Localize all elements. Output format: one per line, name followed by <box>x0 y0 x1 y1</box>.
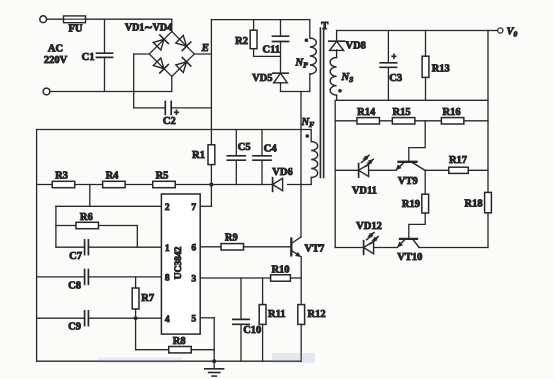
wire <box>374 247 398 249</box>
wire <box>171 77 173 92</box>
label C5 <box>238 142 251 153</box>
capacitor C1 <box>97 19 113 91</box>
label R7 <box>141 293 154 304</box>
label VD5 <box>252 73 272 84</box>
svg-text:C9: C9 <box>68 321 81 332</box>
phase dot NF <box>306 134 310 138</box>
pin 1 <box>165 244 170 254</box>
label UC3842 <box>174 246 184 279</box>
svg-text:+: + <box>391 52 396 62</box>
wire pin5 link <box>200 318 214 361</box>
svg-text:R8: R8 <box>173 336 186 347</box>
svg-text:E: E <box>201 42 209 54</box>
resistor R14 <box>357 118 380 124</box>
diode VD4 (bridge bottom-right) <box>172 54 195 77</box>
svg-text:VT7: VT7 <box>305 244 325 255</box>
svg-text:VD8: VD8 <box>346 41 366 52</box>
wire output top <box>337 30 488 32</box>
label R5 <box>156 171 169 182</box>
svg-text:VD12: VD12 <box>356 221 382 232</box>
resistor R6 <box>56 222 137 247</box>
secondary winding NS <box>330 50 337 101</box>
svg-text:R17: R17 <box>449 155 467 166</box>
terminal AC live <box>40 16 47 23</box>
wire <box>335 247 363 249</box>
svg-text:2: 2 <box>165 203 170 213</box>
resistor R16 <box>441 118 464 124</box>
wire NS return <box>337 99 488 101</box>
resistor R17 <box>449 167 469 173</box>
resistor R1 <box>208 145 215 165</box>
resistor R18 <box>485 192 492 212</box>
label VD6 <box>272 167 292 178</box>
resistor R7 <box>132 277 139 318</box>
label T <box>321 21 328 32</box>
capacitor C4 <box>253 130 271 185</box>
pin 2 <box>165 203 170 213</box>
op-amp U1 UC3842 box <box>161 194 200 334</box>
resistor R5 <box>153 181 176 187</box>
feedback winding NF <box>311 130 318 185</box>
svg-text:1: 1 <box>165 244 170 254</box>
label R4 <box>106 171 120 182</box>
svg-text:R13: R13 <box>432 64 450 75</box>
ground <box>205 361 224 376</box>
terminal V0 <box>498 28 503 33</box>
resistor R15 <box>392 118 415 124</box>
diode VD2 (bridge top-right) <box>172 32 195 55</box>
wire <box>335 169 358 171</box>
svg-text:5: 5 <box>191 314 196 324</box>
wire NF top feed <box>37 129 312 131</box>
svg-text:C1: C1 <box>82 52 95 63</box>
label VT9 <box>398 176 418 187</box>
wire <box>281 91 310 93</box>
label R6 <box>80 212 93 223</box>
resistor R3 <box>52 181 75 187</box>
label C2 <box>163 116 176 127</box>
terminal AC neutral <box>43 88 50 95</box>
label VD11 <box>352 186 377 197</box>
wire <box>424 170 426 194</box>
transistor VT9 <box>396 121 426 170</box>
fuse FU <box>64 16 86 23</box>
wire <box>55 206 57 247</box>
svg-text:VD6: VD6 <box>272 167 292 178</box>
wire <box>125 184 152 186</box>
label R9 <box>225 233 238 244</box>
wire <box>369 169 396 171</box>
svg-text:AC: AC <box>48 44 63 55</box>
label VT7 <box>305 244 325 255</box>
svg-text:7: 7 <box>191 203 196 213</box>
svg-text:R2: R2 <box>235 36 248 47</box>
capacitor C8 <box>37 270 162 285</box>
label R3 <box>55 171 68 182</box>
label VT10 <box>397 252 422 263</box>
svg-text:VD5: VD5 <box>252 73 272 84</box>
label V0 <box>507 27 518 39</box>
capacitor C9 <box>37 311 162 326</box>
label R1 <box>192 150 205 161</box>
wire <box>47 18 64 20</box>
wire bottom rail <box>37 360 302 362</box>
label E <box>201 42 209 54</box>
svg-text:R19: R19 <box>402 199 420 210</box>
label C8 <box>68 280 81 291</box>
svg-text:3: 3 <box>191 275 196 285</box>
LED VD11 <box>359 155 374 177</box>
svg-text:R18: R18 <box>465 199 483 210</box>
label R18 <box>465 199 483 210</box>
svg-text:R14: R14 <box>357 107 376 118</box>
capacitor C3 <box>380 31 396 101</box>
label C11 <box>263 45 281 56</box>
capacitor C7 <box>56 240 161 255</box>
svg-text:R4: R4 <box>106 171 120 182</box>
svg-text:R16: R16 <box>443 107 461 118</box>
svg-text:C11: C11 <box>263 45 281 56</box>
wire <box>468 169 488 171</box>
svg-text:T: T <box>321 21 328 32</box>
svg-text:C3: C3 <box>389 73 402 84</box>
resistor R10 <box>271 275 291 281</box>
svg-text:VD11: VD11 <box>352 186 377 197</box>
svg-text:C4: C4 <box>264 144 278 155</box>
label R8 <box>173 336 186 347</box>
wire left rail (primary) <box>36 130 38 362</box>
wire <box>75 184 103 186</box>
LED VD12 <box>364 233 379 255</box>
label C9 <box>68 321 81 332</box>
wire <box>288 184 312 186</box>
svg-text:4: 4 <box>165 315 170 325</box>
label C10 <box>243 325 261 336</box>
wire NP bottom to VT7 collector <box>300 92 302 237</box>
wire pin7 to VCC node <box>200 185 211 207</box>
wire <box>211 19 309 21</box>
svg-text:R9: R9 <box>225 233 238 244</box>
svg-text:R10: R10 <box>271 264 289 275</box>
pin 4 <box>165 315 170 325</box>
label C3 <box>389 73 402 84</box>
wire <box>419 247 488 249</box>
svg-text:VT9: VT9 <box>398 176 418 187</box>
junction <box>209 182 213 186</box>
svg-text:R11: R11 <box>268 309 286 320</box>
capacitor C2 <box>134 101 212 117</box>
label R2 <box>235 36 248 47</box>
wire right rail <box>487 31 489 193</box>
resistor R19 <box>422 194 429 213</box>
wire <box>487 213 489 248</box>
label NF <box>301 117 315 129</box>
label R14 <box>357 107 376 118</box>
label NS <box>341 72 354 84</box>
wire <box>210 165 212 185</box>
label VD1~VD4 <box>125 23 172 34</box>
capacitor C11 <box>273 20 289 74</box>
wire <box>488 30 498 32</box>
label R10 <box>271 264 289 275</box>
label AC 220V <box>44 44 68 67</box>
junction <box>134 316 138 320</box>
wire <box>211 184 272 186</box>
svg-text:UC3842: UC3842 <box>174 246 184 279</box>
wire <box>171 19 173 31</box>
pin 5 <box>191 314 196 324</box>
svg-text:R1: R1 <box>192 150 205 161</box>
wire pin2 tap <box>89 185 91 207</box>
wire <box>175 184 211 186</box>
resistor R11 <box>259 278 266 361</box>
label R19 <box>402 199 420 210</box>
phase dot NP <box>305 38 309 42</box>
label C1 <box>82 52 95 63</box>
diode VD5 <box>273 73 288 91</box>
label VD8 <box>346 41 366 52</box>
wire <box>290 277 301 279</box>
svg-text:FU: FU <box>69 24 83 35</box>
svg-text:VT10: VT10 <box>397 252 422 263</box>
wire pin2 row <box>56 205 161 207</box>
node E wire <box>194 53 211 55</box>
label R16 <box>443 107 461 118</box>
svg-text:C5: C5 <box>238 142 251 153</box>
label C7 <box>69 251 82 262</box>
wire pin3 row <box>200 277 270 279</box>
transformer T core <box>320 28 323 178</box>
pin 8 <box>165 274 170 284</box>
label R11 <box>268 309 286 320</box>
svg-text:VD1∼VD4: VD1∼VD4 <box>125 23 172 34</box>
svg-text:C10: C10 <box>243 325 261 336</box>
wire <box>37 184 52 186</box>
svg-text:C7: C7 <box>69 251 82 262</box>
svg-text:8: 8 <box>165 274 170 284</box>
label R12 <box>308 309 326 320</box>
svg-text:R3: R3 <box>55 171 68 182</box>
capacitor C10 <box>233 278 249 361</box>
resistor R12 <box>298 278 305 361</box>
svg-text:R5: R5 <box>156 171 169 182</box>
diode VD6 <box>273 178 283 192</box>
wire <box>86 18 172 20</box>
svg-text:R15: R15 <box>393 107 411 118</box>
label NP <box>295 58 309 70</box>
label R15 <box>393 107 411 118</box>
svg-text:C8: C8 <box>68 280 81 291</box>
wire <box>425 169 449 171</box>
wire E rail <box>210 20 212 145</box>
label FU <box>69 24 83 35</box>
pin 6 <box>191 243 196 253</box>
pin 7 <box>191 203 196 213</box>
svg-text:R12: R12 <box>308 309 326 320</box>
label R13 <box>432 64 450 75</box>
svg-text:R6: R6 <box>80 212 93 223</box>
resistor R2 <box>250 20 280 57</box>
wire <box>98 353 315 363</box>
capacitor C5 <box>227 130 245 185</box>
junction <box>212 359 216 363</box>
svg-text:R7: R7 <box>141 293 154 304</box>
resistor R4 <box>103 181 126 187</box>
wire <box>50 91 172 93</box>
label C4 <box>264 144 278 155</box>
svg-text:6: 6 <box>191 243 196 253</box>
resistor R9 <box>200 244 291 250</box>
primary winding NP <box>310 20 317 92</box>
diode VD3 (bridge bottom-left) <box>149 54 172 77</box>
svg-text:220V: 220V <box>44 55 68 66</box>
label VD12 <box>356 221 382 232</box>
diode VD8 <box>329 31 345 51</box>
wire <box>134 54 150 108</box>
pin 3 <box>191 275 196 285</box>
phase dot NS <box>338 89 342 93</box>
transistor VT7 <box>291 236 301 278</box>
resistor R8 <box>136 318 215 353</box>
transistor VT10 <box>397 213 425 247</box>
wire <box>335 120 488 122</box>
diode VD1 (bridge top-left) <box>149 32 172 55</box>
wire left rail (secondary) <box>334 100 336 247</box>
label R17 <box>449 155 467 166</box>
svg-text:C2: C2 <box>163 116 176 127</box>
resistor R13 <box>422 31 429 101</box>
